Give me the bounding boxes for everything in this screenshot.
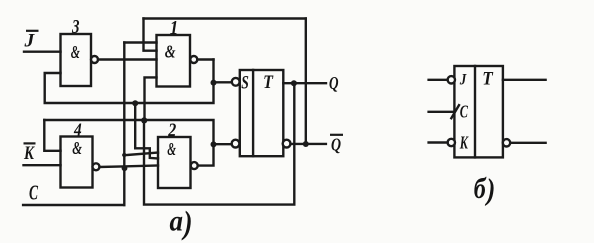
- wire rail 120 feedback: [44, 120, 213, 145]
- svg-text:T: T: [482, 69, 494, 90]
- svg-text:C: C: [460, 102, 469, 122]
- flip-flop Q-bar output bubble: [503, 139, 510, 146]
- wire gate 3 lower input feedback: [45, 60, 214, 104]
- latch Q-bar output bubble: [283, 140, 291, 148]
- gate 4 output bubble: [93, 163, 100, 170]
- gate 3 output bubble: [91, 56, 98, 63]
- gate 2 output bubble: [191, 162, 198, 169]
- wire R node to R input: [214, 143, 232, 145]
- gate 3 (NAND) body: [61, 34, 92, 86]
- svg-text:4: 4: [73, 120, 82, 140]
- svg-text:&: &: [72, 138, 82, 158]
- wire C input: [429, 111, 455, 113]
- node Q junction dot: [291, 80, 297, 86]
- node S junction dot: [211, 80, 217, 86]
- svg-text:K: K: [23, 143, 35, 164]
- svg-text:б: б: [474, 172, 487, 205]
- wire Q-bar output (b): [510, 142, 545, 144]
- wire gate 2 output to R node: [198, 145, 214, 166]
- wire rail 120 to gate 4 upper input: [44, 120, 60, 151]
- svg-text:Q: Q: [331, 135, 341, 155]
- wire VB cross feedback to gate 2: [135, 103, 158, 159]
- svg-text:T: T: [263, 72, 274, 93]
- svg-text:): ): [484, 172, 495, 207]
- svg-text:J: J: [459, 72, 467, 89]
- latch divider: [252, 70, 254, 156]
- svg-text:2: 2: [167, 120, 176, 141]
- node Q-bar junction dot: [303, 141, 309, 147]
- svg-text:&: &: [167, 139, 176, 159]
- wire Q-bar output: [291, 143, 326, 145]
- wire J-bar input to gate 3: [24, 51, 61, 53]
- wire gate 1 output to S input: [197, 60, 232, 83]
- flip-flop divider: [474, 66, 476, 157]
- svg-text:Q: Q: [329, 73, 339, 93]
- latch R input bubble: [232, 140, 240, 148]
- svg-text:K: K: [459, 133, 469, 153]
- wire rail 120 to gate 1 lower input: [145, 77, 157, 120]
- wire top rail drop to gate 1 input: [144, 19, 157, 51]
- wire C riser (node C vertical): [123, 43, 125, 206]
- wire Q-bar feedback vertical: [305, 19, 307, 145]
- node C branch dot: [122, 153, 126, 157]
- wire C branch to gate 2 input: [124, 153, 158, 156]
- wire K-bar input to gate 4: [24, 164, 61, 166]
- node R junction dot: [211, 141, 217, 147]
- flip-flop U6 (b diagram) body: [454, 66, 503, 157]
- latch U5 (S T block) body: [240, 70, 283, 156]
- wire K input: [429, 141, 448, 143]
- node VB junction dot: [132, 100, 138, 106]
- svg-text:&: &: [165, 41, 176, 61]
- svg-text:1: 1: [170, 17, 179, 39]
- svg-text:J: J: [23, 31, 34, 52]
- wire C to gate 1 top input: [124, 41, 156, 43]
- svg-text:S: S: [241, 72, 249, 93]
- flip-flop J input bubble: [448, 76, 455, 83]
- wire gate 4 output to gate 2 input: [100, 166, 159, 168]
- node VA lower dot: [122, 165, 128, 171]
- wire Q output (b): [503, 79, 546, 81]
- svg-text:&: &: [71, 42, 80, 62]
- svg-text:а: а: [170, 205, 184, 238]
- node rail-120 junction dot: [141, 117, 147, 123]
- dynamic input slash on C: [451, 105, 459, 118]
- gate 4 (NAND) body: [61, 137, 93, 188]
- latch S input bubble: [232, 78, 240, 86]
- svg-text:): ): [181, 206, 192, 242]
- gate 1 output bubble: [190, 56, 197, 63]
- gate 1 (NAND) body: [157, 35, 191, 87]
- svg-text:C: C: [29, 181, 39, 205]
- wire J input: [429, 79, 448, 81]
- wire C input line: [23, 204, 124, 206]
- svg-text:3: 3: [71, 16, 79, 38]
- gate 2 (NAND) body: [158, 137, 191, 188]
- wire Q feedback riser and bottom rail: [144, 83, 294, 204]
- wire Q output: [283, 82, 326, 84]
- wire gate 3 output to gate 1 input: [98, 58, 157, 60]
- wire top rail Q-bar feedback: [144, 17, 306, 19]
- flip-flop K input bubble: [448, 139, 455, 146]
